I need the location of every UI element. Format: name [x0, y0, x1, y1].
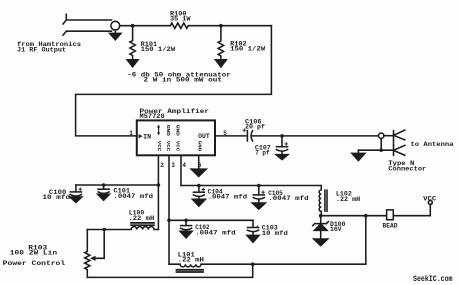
svg-text:GND: GND — [196, 141, 202, 152]
wire vcc3 bus — [181, 185, 321, 187]
ferrite bead FB — [387, 210, 394, 220]
node junction C105 — [257, 184, 261, 188]
svg-text:6: 6 — [198, 162, 202, 169]
wire R100 to corner — [188, 25, 271, 27]
wire connector shield — [358, 138, 393, 150]
svg-text:1: 1 — [129, 130, 133, 137]
ground at C107 — [276, 151, 288, 159]
resistor R102 — [218, 26, 223, 60]
value label C102 — [195, 224, 236, 236]
resistor R101 — [130, 26, 135, 60]
value label C107 — [255, 144, 271, 156]
pin 1 input arrow — [139, 134, 143, 138]
svg-text:OUT: OUT — [198, 133, 210, 140]
value label C104 — [208, 189, 248, 201]
wiper arrowhead — [90, 256, 96, 261]
wire to antenna fork — [384, 135, 394, 137]
inductor L101 — [169, 264, 366, 267]
capacitor C105 — [253, 186, 264, 200]
value label L102 — [336, 191, 361, 203]
wire vcc feed — [321, 215, 387, 217]
antenna shield fork — [394, 145, 405, 155]
ground at C105 — [252, 199, 265, 209]
coax input cable J1 — [63, 14, 112, 35]
svg-text:150 1/2W: 150 1/2W — [230, 46, 265, 53]
svg-text:Power Control: Power Control — [3, 260, 66, 267]
svg-text:+: + — [256, 224, 259, 230]
node junction C104 — [197, 184, 201, 188]
ground at input connector — [110, 30, 121, 40]
capacitor C103 — [248, 220, 259, 231]
svg-text:5: 5 — [223, 130, 227, 137]
pin label arrow col1 — [157, 125, 160, 136]
value label L100 — [128, 210, 154, 222]
ground at C104 — [192, 197, 205, 207]
ground at type N shield — [352, 150, 365, 160]
svg-text:7 pf: 7 pf — [255, 150, 270, 157]
capacitor C107 — [276, 136, 287, 151]
svg-text:2 W in 500 mW out: 2 W in 500 mW out — [144, 77, 223, 84]
connector circle type N — [379, 133, 384, 138]
wire pin 6 gnd — [198, 155, 200, 169]
svg-text:.22 mH: .22 mH — [128, 215, 154, 222]
svg-text:BEAD: BEAD — [383, 222, 398, 229]
wire bottom bus — [87, 264, 252, 277]
capacitor C100 — [70, 185, 81, 196]
svg-text:20 pf: 20 pf — [245, 124, 265, 131]
svg-text:IN: IN — [143, 134, 151, 141]
label power amplifier M57728 — [140, 108, 210, 120]
note attenuator — [127, 72, 231, 84]
capacitor C106 — [243, 129, 253, 141]
svg-text:GND: GND — [165, 125, 171, 137]
svg-text:.0047 mfd: .0047 mfd — [195, 230, 236, 237]
ground at pin 6 — [191, 169, 206, 176]
label from Hamtronics J1 RF Output — [17, 41, 81, 54]
wire C106 to junction — [252, 135, 378, 137]
svg-text:SeekIC.com: SeekIC.com — [413, 274, 453, 284]
svg-text:VCC: VCC — [156, 141, 162, 152]
svg-text:.22 mH: .22 mH — [336, 196, 361, 203]
value label R102 — [230, 41, 265, 53]
resistor R100 — [170, 23, 188, 28]
wire output pin 5 — [215, 135, 246, 137]
label type N connector — [388, 160, 426, 173]
value label C101 — [114, 188, 154, 200]
value label C106 — [245, 119, 265, 131]
wire pin 3 vcc2 — [168, 155, 170, 264]
ground at R102 — [215, 60, 226, 67]
svg-text:VCC: VCC — [165, 141, 171, 152]
ground at R101 — [127, 60, 138, 67]
node junction pin3 bus — [167, 219, 171, 223]
node junction L102 D100 — [319, 214, 323, 218]
svg-text:.0047 mfd: .0047 mfd — [268, 195, 309, 202]
node junction shield — [380, 149, 383, 152]
ground at C103 — [247, 232, 259, 242]
ground at C101 — [98, 194, 110, 201]
svg-text:10 mfd: 10 mfd — [262, 230, 288, 237]
inductor L102 core — [325, 190, 327, 211]
svg-text:16V: 16V — [330, 226, 342, 233]
connector dashed boundary — [393, 141, 395, 146]
resistor R103 potentiometer — [85, 230, 90, 278]
svg-text:M57728: M57728 — [140, 113, 166, 120]
value label C100 — [42, 189, 70, 201]
wire pin 2 vcc1 — [157, 155, 159, 229]
ground at D100 — [314, 239, 328, 246]
antenna center pin fork — [394, 130, 405, 140]
svg-text:4: 4 — [182, 162, 186, 169]
capacitor C101 — [98, 185, 109, 193]
svg-text:VCC: VCC — [174, 141, 180, 152]
connector circle J1 RF output — [111, 21, 120, 30]
svg-text:.0047 mfd: .0047 mfd — [208, 194, 248, 201]
svg-text:VCC: VCC — [423, 196, 437, 203]
node junction wiper wire — [102, 228, 106, 232]
wire vcc1 bus left — [76, 184, 158, 186]
svg-text:GND: GND — [174, 125, 180, 137]
value label C105 — [268, 190, 309, 202]
inductor L100 core — [131, 223, 154, 225]
wire attenuator output to amplifier input — [76, 26, 272, 136]
node junction C107 — [280, 134, 284, 138]
value label R103 power control — [3, 244, 66, 267]
diode D100 zener — [313, 216, 329, 239]
wire top bus — [120, 25, 171, 27]
inductor L101 core — [177, 270, 204, 272]
value label R101 — [141, 41, 176, 53]
svg-text:Connector: Connector — [388, 166, 426, 173]
svg-text:3: 3 — [171, 162, 175, 169]
node junction vcc down — [364, 214, 368, 218]
svg-text:100 2W Lin: 100 2W Lin — [10, 250, 58, 257]
node junction C101 — [102, 183, 106, 187]
svg-text:to Antenna: to Antenna — [411, 141, 454, 148]
value label R100 — [170, 11, 191, 23]
node junction pin2 bus — [157, 183, 161, 187]
svg-text:.0047 mfd: .0047 mfd — [114, 193, 154, 200]
ground at C102 — [180, 230, 192, 238]
value label L101 — [178, 251, 204, 263]
wire vcc to bottom net — [365, 216, 367, 265]
node junction bottom bus — [251, 262, 255, 266]
capacitor C104 — [193, 186, 204, 197]
vcc terminal circle — [428, 201, 432, 205]
svg-text:J1 RF Output: J1 RF Output — [17, 47, 66, 54]
svg-text:10 mfd: 10 mfd — [42, 194, 70, 201]
wire vcc2 bus right — [169, 219, 253, 221]
value label D100 — [330, 221, 346, 233]
svg-text:.22 mH: .22 mH — [178, 256, 204, 263]
wire bead to vcc terminal — [393, 205, 430, 216]
wire pin 4 vcc3 — [180, 155, 182, 185]
node junction C102 — [184, 219, 188, 223]
inductor L100 — [87, 227, 158, 230]
ground at C100 — [70, 196, 82, 202]
node junction R101 — [131, 24, 135, 28]
capacitor C102 — [181, 220, 192, 229]
svg-text:35 1W: 35 1W — [170, 16, 191, 23]
op-amp U1 power amplifier module box — [137, 120, 215, 155]
inductor L102 — [319, 186, 321, 216]
svg-text:2: 2 — [160, 162, 164, 169]
node junction R102 — [219, 24, 223, 28]
wire R103 wiper — [95, 230, 104, 259]
value label C103 — [256, 224, 288, 236]
svg-text:150 1/2W: 150 1/2W — [141, 46, 176, 53]
